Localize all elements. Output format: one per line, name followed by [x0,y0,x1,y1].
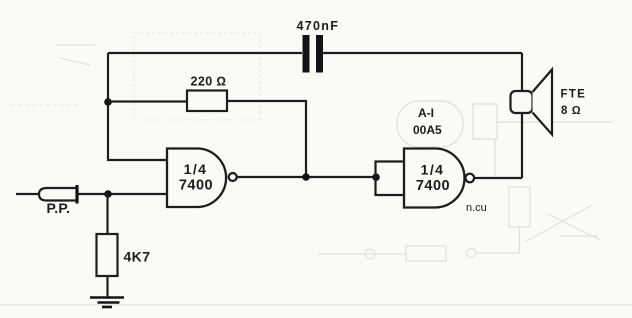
wire: gate2 output to speaker rail [474,177,522,179]
probe P.P. input lead [16,193,39,195]
node: feedback junction [302,173,310,181]
probe tip bar [75,185,78,204]
svg-text:00A5: 00A5 [413,123,442,137]
wire: right vertical rail [521,53,523,178]
wire: gate2 input tie bracket [376,162,405,196]
svg-text:A-I: A-I [418,106,434,120]
wire: left vertical rail down to gate1 upper input [108,53,167,160]
wire: resistor R2 to ground [106,276,108,298]
svg-text:P.P.: P.P. [47,200,71,216]
resistor R2 4K7 body [97,234,118,276]
ghost gate blob (bleed-through) [397,101,612,178]
ghost bleed-through rectangle around 220R area [11,33,260,120]
speaker LS1 magnet box [511,91,533,113]
svg-text:1/4: 1/4 [421,162,445,178]
gate U1b NAND body [404,149,465,208]
wire: down to resistor R2 [106,194,108,234]
node: gate2 input junction [372,173,380,181]
svg-text:7400: 7400 [179,178,213,194]
svg-text:1/4: 1/4 [184,161,208,177]
wire: top rail right of capacitor [323,52,522,54]
svg-text:7400: 7400 [416,178,450,194]
ground symbol [90,298,124,308]
wire: to resistor R1 left lead [108,100,187,102]
resistor R1 220 ohm body [187,91,227,112]
wire: resistor R1 right lead to feedback node [227,101,306,177]
op gate U1a NAND body [167,149,226,208]
svg-text:470nF: 470nF [297,19,340,33]
svg-text:n.cu: n.cu [466,202,487,214]
gate U1a inversion bubble [229,173,237,181]
svg-text:FTE: FTE [561,89,587,101]
svg-text:8Ω: 8Ω [561,105,585,117]
node: junction left rail / 220R [104,98,112,106]
wire: gate1 output to gate2 inputs [237,176,376,178]
node: junction probe line / 4K7 [104,190,112,198]
gate U1b inversion bubble [466,174,475,183]
wire: probe to gate1 lower input [79,193,168,195]
capacitor C1 470nF plates [303,35,324,73]
ghost text bleed [413,106,487,214]
speaker LS1 cone [533,70,553,135]
wire: top rail left of capacitor [108,52,302,54]
svg-text:220 Ω: 220 Ω [191,75,227,89]
probe body [39,188,77,201]
svg-text:4K7: 4K7 [124,249,151,265]
